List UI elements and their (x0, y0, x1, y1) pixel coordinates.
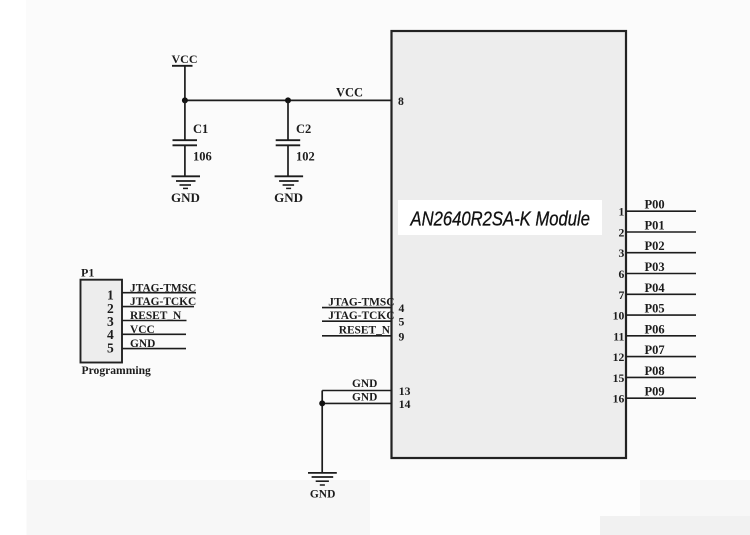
wire C2 top lead (287, 100, 289, 140)
svg-text:VCC: VCC (172, 52, 198, 66)
net label P04 (645, 281, 666, 295)
net label GND at pin 14 (352, 392, 377, 404)
wire module pin 13 stub GND (322, 390, 391, 392)
wire module pin 9 stub (322, 335, 392, 337)
wire P1 pin 1 (122, 292, 196, 294)
C1 value 106 (193, 150, 212, 164)
svg-text:10: 10 (613, 310, 625, 323)
pin 7 number (618, 289, 624, 302)
svg-text:106: 106 (193, 150, 212, 164)
pin 14 number (399, 398, 411, 411)
net label P07 (645, 343, 665, 357)
wire P1 pin 3 (122, 320, 186, 322)
net label JTAG-TCKC at module (328, 310, 394, 322)
P1 reference label (81, 266, 94, 280)
wire pin 12 (626, 356, 696, 358)
svg-text:14: 14 (399, 398, 411, 411)
wire pin 10 (626, 314, 696, 316)
svg-text:P08: P08 (645, 364, 665, 378)
net label P01 (645, 219, 665, 233)
net label RESET_N at module (339, 325, 391, 337)
svg-text:5: 5 (399, 316, 405, 329)
pin 5 number (399, 316, 405, 329)
svg-text:GND: GND (274, 190, 303, 205)
svg-text:GND: GND (352, 378, 377, 390)
wire module pin 14 stub GND (322, 402, 391, 404)
net label GND at P1 (130, 338, 155, 350)
svg-text:P00: P00 (645, 198, 665, 212)
svg-text:13: 13 (399, 385, 411, 398)
net label P02 (645, 239, 665, 253)
node junction GND (319, 400, 325, 406)
svg-text:GND: GND (130, 338, 155, 350)
svg-text:P06: P06 (645, 322, 665, 336)
net label P05 (645, 302, 665, 316)
C2 reference label (296, 122, 311, 136)
svg-text:P04: P04 (645, 281, 666, 295)
wire pin 15 (626, 376, 696, 378)
net label P00 (645, 198, 665, 212)
net label P09 (645, 385, 665, 399)
net label P03 (645, 260, 665, 274)
svg-text:RESET_N: RESET_N (339, 325, 391, 337)
ground GND under C1 (171, 176, 200, 205)
C2 value 102 (296, 150, 315, 164)
svg-text:JTAG-TCKC: JTAG-TCKC (130, 296, 196, 308)
net label JTAG-TCKC at P1 (130, 296, 196, 308)
svg-text:P01: P01 (645, 219, 665, 233)
svg-text:102: 102 (296, 150, 315, 164)
net label JTAG-TMSC at P1 (130, 282, 196, 294)
svg-text:P07: P07 (645, 343, 665, 357)
wire C1 bottom lead (184, 145, 186, 176)
P1 pin 2 number (107, 301, 114, 316)
P1 pin 4 number (107, 327, 114, 342)
module title label AN2640R2SA-K Module (409, 208, 590, 231)
svg-text:6: 6 (618, 268, 624, 281)
pin 12 number (613, 351, 625, 364)
pin 13 number (399, 385, 411, 398)
wire module pin 4 stub (322, 307, 392, 309)
svg-text:3: 3 (618, 247, 624, 260)
svg-text:P09: P09 (645, 385, 665, 399)
ground GND bottom (308, 473, 337, 501)
P1 pin 5 number (107, 341, 114, 356)
svg-text:2: 2 (618, 227, 624, 240)
svg-text:GND: GND (310, 489, 336, 501)
wire C1 top lead (184, 100, 186, 140)
svg-text:JTAG-TMSC: JTAG-TMSC (130, 282, 196, 294)
wire C2 bottom lead (287, 145, 289, 176)
wire pin 11 (626, 335, 696, 337)
wire P1 pin 4 (122, 333, 186, 335)
svg-text:11: 11 (613, 330, 624, 343)
svg-text:RESET_N: RESET_N (130, 310, 182, 322)
svg-text:12: 12 (613, 351, 625, 364)
module AN2640R2SA-K box (392, 31, 627, 458)
node junction at C1 (182, 97, 188, 103)
wire pin 3 (626, 252, 696, 254)
pin 16 number (613, 393, 625, 406)
svg-text:8: 8 (398, 95, 404, 108)
wire pin 2 (626, 231, 696, 233)
P1 label Programming (82, 364, 152, 377)
capacitor C1 (173, 140, 198, 145)
wire pin 6 (626, 273, 696, 275)
svg-text:VCC: VCC (336, 86, 363, 100)
pin 11 number (613, 330, 624, 343)
node junction at C2 (285, 97, 291, 103)
pin 9 number (399, 330, 405, 343)
pin 10 number (613, 310, 625, 323)
pin 2 number (618, 227, 624, 240)
wire VCC down to junction (184, 66, 186, 101)
wire module pin 5 stub (322, 320, 392, 322)
svg-text:7: 7 (618, 289, 624, 302)
net label RESET_N at P1 (130, 310, 182, 322)
svg-text:AN2640R2SA-K Module: AN2640R2SA-K Module (409, 208, 590, 231)
wire VCC bus to module pin 8 (185, 99, 392, 101)
net label VCC at pin 8 (336, 86, 363, 100)
svg-text:C1: C1 (193, 122, 208, 136)
svg-text:P1: P1 (81, 266, 94, 280)
svg-text:VCC: VCC (130, 324, 155, 336)
pin 15 number (613, 372, 625, 385)
svg-text:GND: GND (171, 190, 200, 205)
pin 4 number (399, 302, 405, 315)
svg-text:P03: P03 (645, 260, 665, 274)
wire P1 pin 5 (122, 348, 186, 350)
pin 3 number (618, 247, 624, 260)
wire pin 1 (626, 210, 696, 212)
wire pin 7 (626, 293, 696, 295)
net label VCC at P1 (130, 324, 155, 336)
net label P06 (645, 322, 665, 336)
svg-text:5: 5 (107, 341, 114, 356)
net label P08 (645, 364, 665, 378)
pin 1 number (618, 206, 624, 219)
power VCC symbol (172, 52, 198, 66)
net label JTAG-TMSC at module (328, 296, 394, 308)
svg-text:9: 9 (399, 330, 405, 343)
svg-text:P02: P02 (645, 239, 665, 253)
pin 6 number (618, 268, 624, 281)
svg-text:C2: C2 (296, 122, 311, 136)
ground GND under C2 (274, 176, 303, 205)
capacitor C2 (276, 140, 301, 145)
svg-text:4: 4 (399, 302, 405, 315)
P1 pin 3 number (107, 314, 114, 329)
wire GND vertical to ground (321, 391, 323, 473)
svg-text:GND: GND (352, 392, 377, 404)
connector P1 box (81, 280, 123, 363)
svg-text:JTAG-TCKC: JTAG-TCKC (328, 310, 394, 322)
svg-text:Programming: Programming (82, 364, 152, 377)
svg-text:1: 1 (618, 206, 624, 219)
wire pin 16 (626, 397, 696, 399)
svg-text:16: 16 (613, 393, 625, 406)
svg-text:JTAG-TMSC: JTAG-TMSC (328, 296, 394, 308)
net label GND at pin 13 (352, 378, 377, 390)
pin 8 number (398, 95, 404, 108)
wire P1 pin 2 (122, 306, 194, 308)
svg-text:P05: P05 (645, 302, 665, 316)
svg-text:15: 15 (613, 372, 625, 385)
C1 reference label (193, 122, 208, 136)
module title background (398, 200, 602, 235)
P1 pin 1 number (107, 288, 114, 303)
